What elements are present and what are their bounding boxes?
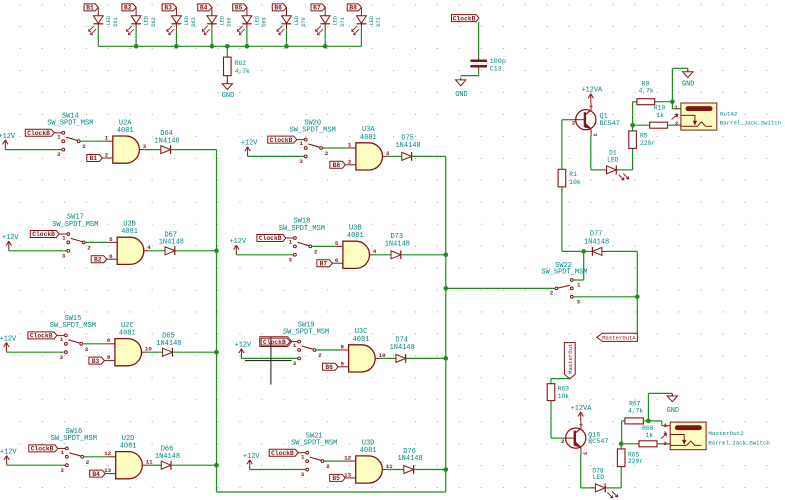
- svg-text:4,7k: 4,7k: [628, 408, 643, 415]
- svg-text:Barrel_Jack_Switch: Barrel_Jack_Switch: [720, 119, 781, 126]
- and-gate U2B 4081: [109, 221, 149, 265]
- wire: [657, 443, 670, 445]
- svg-text:ClockB: ClockB: [259, 235, 282, 242]
- junction: [174, 44, 179, 49]
- wire: [406, 357, 446, 359]
- LED D68: [202, 7, 232, 34]
- svg-text:1k: 1k: [656, 112, 664, 119]
- svg-text:ClockB: ClockB: [30, 333, 53, 340]
- svg-text:1: 1: [664, 422, 668, 429]
- svg-text:D70: D70: [301, 17, 307, 26]
- and-gate U2A 4081: [105, 119, 145, 163]
- junction: [214, 350, 219, 355]
- wire: [401, 254, 446, 256]
- svg-text:B6: B6: [325, 364, 333, 371]
- svg-text:9: 9: [107, 354, 111, 361]
- junction: [630, 123, 635, 128]
- svg-text:1N4148: 1N4148: [395, 142, 420, 150]
- svg-text:SW_SPDT_MSM: SW_SPDT_MSM: [291, 440, 337, 448]
- wire: [655, 101, 673, 103]
- global label ClockB: [28, 332, 64, 340]
- power +12V: [0, 336, 17, 353]
- svg-text:LED: LED: [144, 16, 150, 25]
- pin numbers U2B: [109, 236, 151, 260]
- pin numbers U3A: [348, 141, 390, 165]
- svg-text:B5: B5: [235, 5, 243, 12]
- svg-text:1: 1: [348, 141, 352, 148]
- global label ClockB: [269, 449, 305, 457]
- junction: [245, 44, 250, 49]
- global label ClockB: [260, 337, 298, 347]
- global label B2: [122, 4, 136, 12]
- wire: [446, 287, 555, 289]
- and-gate U3D 4081: [347, 439, 387, 483]
- wire: [374, 254, 391, 256]
- wire: [84, 456, 108, 458]
- svg-text:LED: LED: [294, 16, 300, 25]
- wire: [607, 251, 638, 333]
- svg-text:3: 3: [62, 252, 66, 259]
- global label B1: [87, 155, 105, 163]
- svg-text:MasterOut: MasterOut: [567, 344, 574, 374]
- svg-text:R67: R67: [629, 401, 641, 408]
- svg-text:10k: 10k: [558, 393, 570, 400]
- svg-text:+12V: +12V: [0, 449, 17, 457]
- svg-text:3: 3: [591, 133, 597, 136]
- switch SW19: [283, 321, 329, 367]
- svg-text:D61: D61: [113, 17, 119, 26]
- wire: [248, 155, 305, 157]
- svg-text:1: 1: [674, 104, 678, 111]
- svg-text:3: 3: [143, 143, 147, 150]
- wire: [324, 29, 326, 47]
- svg-text:SW_SPDT_MSM: SW_SPDT_MSM: [290, 126, 336, 134]
- svg-text:ClockB: ClockB: [271, 450, 294, 457]
- svg-text:3: 3: [386, 150, 390, 157]
- junction: [444, 467, 449, 472]
- junction: [134, 44, 139, 49]
- svg-text:220r: 220r: [628, 458, 643, 465]
- svg-text:1: 1: [293, 342, 297, 349]
- svg-text:MasterOut2: MasterOut2: [708, 430, 744, 437]
- svg-text:6: 6: [109, 253, 113, 260]
- svg-text:C13: C13: [490, 66, 502, 74]
- global label B8: [330, 161, 348, 169]
- LED D78: [591, 467, 618, 498]
- wire: [172, 351, 216, 353]
- svg-text:1: 1: [61, 449, 65, 456]
- wire: [175, 29, 177, 47]
- wire: [478, 22, 480, 57]
- wire: [324, 460, 347, 462]
- wire: [633, 102, 637, 126]
- svg-text:ClockB: ClockB: [270, 137, 293, 144]
- svg-text:GND: GND: [667, 407, 679, 415]
- svg-text:2: 2: [675, 120, 679, 127]
- wire: [85, 241, 109, 243]
- and-gate U2D 4081: [107, 435, 147, 479]
- svg-text:4081: 4081: [117, 127, 134, 135]
- wire: [621, 148, 633, 170]
- svg-text:B1: B1: [86, 5, 94, 12]
- svg-text:1N4148: 1N4148: [155, 453, 180, 461]
- resistor R5: [629, 131, 656, 149]
- wire: [414, 469, 446, 471]
- svg-text:D77: D77: [590, 231, 603, 239]
- ground: [222, 81, 234, 100]
- svg-text:4081: 4081: [121, 228, 138, 236]
- power +12V: [241, 140, 258, 157]
- wire: [149, 250, 165, 252]
- diode D66 1N4148: [155, 446, 180, 470]
- svg-text:B7: B7: [313, 5, 321, 12]
- svg-text:1: 1: [301, 453, 305, 460]
- svg-text:1: 1: [105, 135, 109, 142]
- svg-text:2: 2: [314, 248, 318, 255]
- svg-text:SW_SPDT_MSM: SW_SPDT_MSM: [541, 269, 587, 277]
- switch SW20: [290, 119, 336, 165]
- svg-text:LED: LED: [369, 16, 375, 25]
- and-gate U3A 4081: [348, 126, 388, 170]
- wire: [622, 421, 625, 444]
- svg-text:B8: B8: [349, 5, 357, 12]
- wire: [412, 155, 446, 157]
- resistor R67: [625, 401, 644, 424]
- diode D74 1N4148: [390, 337, 415, 363]
- wire: [621, 443, 639, 445]
- wire: [211, 29, 213, 47]
- svg-text:4081: 4081: [360, 447, 377, 455]
- svg-text:D69: D69: [262, 17, 268, 26]
- LED D71: [316, 7, 346, 34]
- global label ClockB: [25, 129, 61, 137]
- svg-text:B4: B4: [92, 471, 100, 478]
- global label MasterOut: [564, 343, 575, 379]
- svg-text:LED: LED: [219, 16, 225, 25]
- global label ClockB: [452, 15, 480, 23]
- wire: [246, 29, 248, 47]
- svg-text:2: 2: [550, 290, 554, 297]
- global label B3: [162, 4, 176, 12]
- diode D67 1N4148: [159, 231, 184, 255]
- LED D1: [602, 149, 629, 180]
- svg-text:D68: D68: [227, 17, 233, 26]
- svg-text:2: 2: [663, 440, 667, 447]
- wire: [6, 351, 64, 353]
- wire: [643, 420, 648, 422]
- svg-text:LED: LED: [254, 16, 260, 25]
- junction: [635, 295, 640, 300]
- wire: [387, 155, 401, 157]
- switch SW15: [50, 315, 96, 361]
- ground: [682, 69, 694, 88]
- svg-text:2: 2: [85, 346, 89, 353]
- svg-text:D63: D63: [191, 17, 197, 26]
- wire: [135, 29, 137, 47]
- svg-text:4081: 4081: [360, 134, 377, 142]
- svg-text:B1: B1: [90, 155, 98, 162]
- wire: [562, 119, 573, 121]
- svg-text:4,7k: 4,7k: [639, 88, 654, 95]
- wire: [620, 444, 622, 449]
- svg-text:R5: R5: [640, 133, 648, 140]
- svg-text:1: 1: [289, 239, 293, 246]
- svg-text:ClockB: ClockB: [32, 231, 55, 238]
- svg-text:SW_SPDT_MSM: SW_SPDT_MSM: [47, 120, 93, 128]
- global label MasterOutA: [597, 333, 638, 341]
- svg-text:+12V: +12V: [241, 140, 258, 148]
- svg-text:+12V: +12V: [0, 336, 17, 344]
- wire: [286, 29, 288, 47]
- svg-text:4081: 4081: [353, 336, 370, 344]
- wire: [581, 455, 591, 488]
- svg-text:B8: B8: [333, 162, 341, 169]
- wire: [241, 357, 297, 359]
- svg-text:GND: GND: [222, 92, 234, 100]
- svg-text:SW_SPDT_MSM: SW_SPDT_MSM: [283, 328, 329, 336]
- svg-text:B6: B6: [274, 5, 282, 12]
- svg-text:SW_SPDT_MSM: SW_SPDT_MSM: [50, 322, 96, 330]
- svg-text:2: 2: [572, 120, 576, 127]
- junction: [646, 419, 651, 424]
- svg-text:R10: R10: [654, 105, 666, 112]
- svg-text:+12V: +12V: [0, 133, 16, 141]
- svg-text:5: 5: [109, 236, 113, 243]
- svg-text:D71: D71: [340, 17, 346, 26]
- power +12V: [235, 342, 252, 359]
- svg-text:LED: LED: [106, 16, 112, 25]
- pin numbers U3D: [344, 455, 393, 479]
- barrel jack OutA2: [672, 103, 782, 130]
- svg-text:1k: 1k: [646, 432, 654, 439]
- barrel jack MasterOut2: [661, 422, 770, 450]
- pin numbers U2A: [105, 135, 147, 159]
- wire: [171, 149, 217, 151]
- svg-text:MasterOutA: MasterOutA: [602, 335, 636, 342]
- switch SW17: [52, 214, 98, 260]
- svg-text:9: 9: [341, 360, 345, 367]
- wire bus of LED row: [98, 45, 361, 47]
- svg-text:2: 2: [82, 143, 86, 150]
- svg-text:B2: B2: [94, 256, 102, 263]
- svg-text:D62: D62: [151, 17, 157, 26]
- svg-text:BC547: BC547: [588, 438, 608, 446]
- svg-text:11: 11: [386, 463, 393, 470]
- global label B4: [90, 470, 108, 478]
- switch SW21: [291, 432, 337, 478]
- svg-text:2: 2: [348, 158, 352, 165]
- svg-text:1: 1: [57, 133, 61, 140]
- wire: [387, 469, 404, 471]
- wire: [83, 343, 107, 345]
- svg-text:D72: D72: [376, 17, 382, 26]
- svg-text:1N4148: 1N4148: [397, 455, 422, 463]
- svg-text:8: 8: [341, 343, 345, 350]
- LED D69: [237, 7, 267, 34]
- svg-text:4: 4: [147, 244, 151, 251]
- svg-text:SW_SPDT_MSM: SW_SPDT_MSM: [51, 435, 97, 443]
- svg-text:R8: R8: [642, 80, 650, 87]
- wire: [380, 357, 396, 359]
- global label B5: [330, 474, 348, 482]
- wire: [147, 464, 161, 466]
- wire: [573, 296, 637, 298]
- svg-text:5: 5: [335, 240, 339, 247]
- svg-text:R1: R1: [569, 171, 577, 178]
- capacitor C13: [470, 57, 506, 74]
- svg-text:1: 1: [577, 282, 581, 289]
- global label B6: [323, 363, 341, 371]
- pin numbers U2D: [104, 450, 153, 474]
- svg-text:4081: 4081: [120, 443, 137, 451]
- svg-text:1: 1: [300, 140, 304, 147]
- global label B3: [89, 357, 107, 365]
- wire: [573, 251, 584, 280]
- wire: [591, 136, 602, 170]
- svg-text:1: 1: [62, 235, 66, 242]
- svg-text:12: 12: [104, 450, 111, 457]
- and-gate U3B 4081: [335, 225, 375, 269]
- diode D65 1N4148: [156, 333, 181, 357]
- wire: [250, 469, 306, 471]
- svg-text:3: 3: [57, 151, 61, 158]
- global label B2: [91, 256, 109, 264]
- svg-text:2: 2: [326, 463, 330, 470]
- svg-text:GND: GND: [455, 91, 467, 99]
- svg-text:B7: B7: [320, 260, 328, 267]
- svg-text:+12V: +12V: [2, 234, 19, 242]
- power +12V: [0, 449, 17, 466]
- svg-text:B3: B3: [164, 5, 172, 12]
- junction: [619, 442, 624, 447]
- LED D72: [352, 7, 382, 34]
- svg-text:BC547: BC547: [600, 120, 620, 128]
- LED D70: [277, 7, 307, 34]
- power +12VA: [571, 405, 593, 422]
- global label B8: [347, 4, 361, 12]
- svg-text:1N4148: 1N4148: [159, 239, 184, 247]
- wire: [648, 421, 670, 426]
- svg-text:11: 11: [146, 459, 153, 466]
- svg-text:Q1: Q1: [600, 112, 608, 120]
- svg-text:SW_SPDT_MSM: SW_SPDT_MSM: [52, 221, 98, 229]
- global label B4: [198, 4, 212, 12]
- resistor R62: [224, 46, 251, 83]
- junction: [284, 44, 289, 49]
- svg-text:1N4148: 1N4148: [156, 340, 181, 348]
- svg-text:10: 10: [379, 352, 386, 359]
- power +12V: [2, 234, 19, 251]
- svg-text:3: 3: [289, 256, 293, 263]
- global label B7: [317, 260, 335, 268]
- svg-text:LED: LED: [333, 16, 339, 25]
- svg-text:4: 4: [373, 248, 377, 255]
- ground: [667, 394, 679, 416]
- wire: [80, 140, 104, 142]
- svg-text:3: 3: [581, 452, 587, 455]
- and-gate U2C 4081: [107, 322, 147, 366]
- wire: [672, 68, 687, 101]
- pin numbers U3B: [335, 240, 377, 264]
- svg-text:1N4148: 1N4148: [154, 137, 179, 145]
- global label B5: [233, 4, 247, 12]
- resistor R63: [547, 384, 569, 401]
- wire: [144, 149, 161, 151]
- power +12V: [243, 453, 260, 470]
- resistor R1: [558, 169, 581, 187]
- svg-text:B4: B4: [200, 5, 208, 12]
- global label ClockB: [268, 136, 304, 144]
- wire: [171, 464, 217, 466]
- LED D63: [167, 7, 197, 34]
- diode D73 1N4148: [385, 233, 410, 259]
- svg-text:+12V: +12V: [230, 238, 247, 246]
- global label ClockB: [29, 445, 65, 453]
- svg-text:ClockB: ClockB: [453, 15, 476, 22]
- svg-text:ClockB: ClockB: [27, 130, 50, 137]
- svg-text:3: 3: [60, 354, 64, 361]
- svg-text:+12V: +12V: [243, 453, 260, 461]
- wire: [561, 120, 563, 170]
- svg-text:OutA2: OutA2: [720, 110, 738, 117]
- svg-text:12: 12: [344, 455, 351, 462]
- svg-text:ClockB: ClockB: [263, 339, 286, 346]
- svg-text:ClockB: ClockB: [31, 446, 54, 453]
- svg-text:1N4148: 1N4148: [385, 240, 410, 248]
- and-gate U3C 4081: [340, 328, 380, 372]
- wire: [562, 187, 584, 252]
- svg-text:3: 3: [299, 158, 303, 165]
- svg-text:1N4148: 1N4148: [390, 344, 415, 352]
- resistor R68: [639, 425, 657, 447]
- svg-text:10: 10: [145, 346, 152, 353]
- wire: [5, 149, 62, 151]
- svg-text:4,7k: 4,7k: [235, 68, 250, 75]
- diode D64 1N4148: [154, 130, 179, 154]
- ground: [455, 77, 467, 99]
- svg-text:4081: 4081: [347, 232, 364, 240]
- wire: [610, 467, 621, 488]
- wire: [551, 401, 563, 439]
- global label ClockB: [30, 231, 66, 239]
- wire bus middle column: [445, 156, 447, 492]
- junction: [444, 356, 449, 361]
- svg-text:SW_SPDT_MSM: SW_SPDT_MSM: [279, 225, 325, 233]
- wire: [323, 147, 348, 149]
- junction: [444, 286, 449, 291]
- transistor Q16 BC547: [561, 422, 609, 455]
- svg-text:8: 8: [107, 337, 111, 344]
- svg-text:D1: D1: [609, 149, 617, 156]
- switch SW16: [51, 428, 97, 474]
- wire: [312, 245, 335, 247]
- junction: [581, 249, 586, 254]
- svg-text:1N4148: 1N4148: [584, 239, 609, 247]
- svg-text:1: 1: [60, 336, 64, 343]
- svg-text:R63: R63: [558, 386, 570, 393]
- wire: [9, 250, 67, 252]
- svg-text:2: 2: [105, 152, 109, 159]
- resistor R65: [617, 449, 643, 467]
- svg-text:3: 3: [301, 471, 305, 478]
- svg-text:2: 2: [561, 438, 565, 445]
- junction: [670, 99, 675, 104]
- svg-text:2: 2: [318, 352, 322, 359]
- transistor Q1 BC547: [572, 103, 620, 136]
- svg-text:R62: R62: [235, 60, 247, 67]
- svg-text:2: 2: [87, 244, 91, 251]
- pin numbers U2C: [107, 337, 153, 361]
